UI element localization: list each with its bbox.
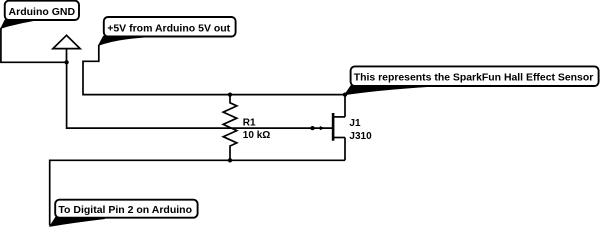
svg-text:To Digital Pin 2 on Arduino: To Digital Pin 2 on Arduino xyxy=(58,204,192,216)
svg-text:+5V from Arduino 5V out: +5V from Arduino 5V out xyxy=(107,22,230,34)
svg-text:J1: J1 xyxy=(349,118,361,129)
svg-text:This represents the SparkFun H: This represents the SparkFun Hall Effect… xyxy=(354,73,594,84)
svg-text:10 kΩ: 10 kΩ xyxy=(243,130,270,141)
svg-text:Arduino GND: Arduino GND xyxy=(9,6,76,18)
svg-text:J310: J310 xyxy=(349,131,372,142)
svg-text:R1: R1 xyxy=(243,117,256,128)
